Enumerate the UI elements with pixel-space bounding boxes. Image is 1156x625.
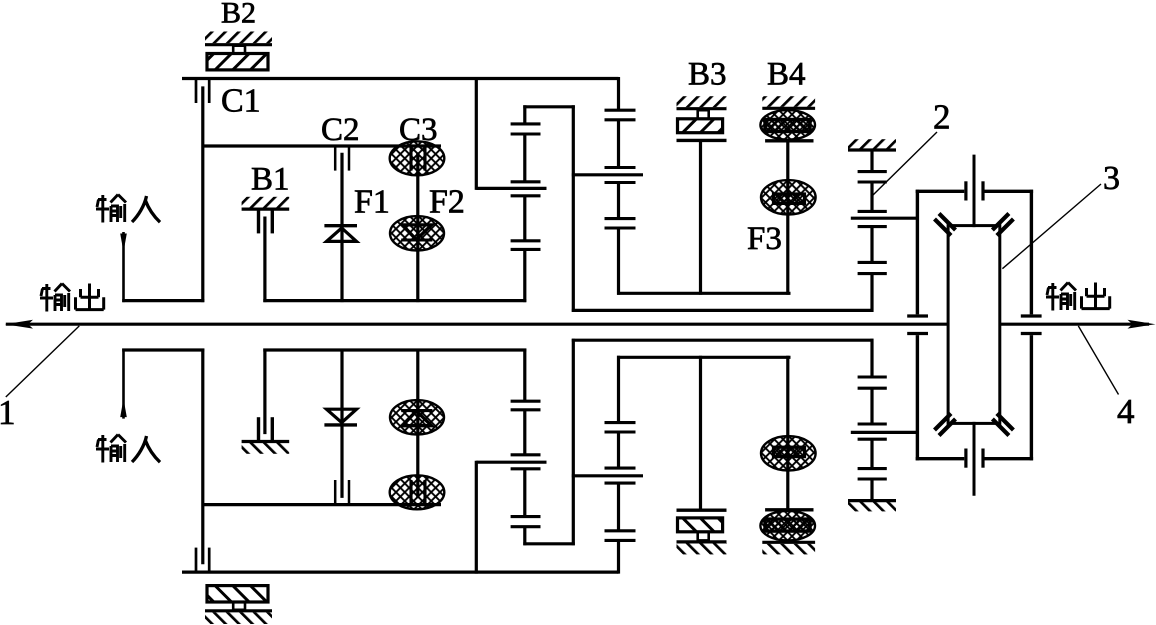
svg-text:F2: F2	[429, 184, 465, 221]
shaft V3 from C2 through F1	[340, 153, 343, 302]
wire W8 lower row right	[263, 299, 526, 302]
gear column G2 bars	[858, 172, 887, 274]
bottom half mirror	[120, 339, 917, 574]
svg-text:C1: C1	[221, 83, 261, 120]
brake B2 ground hatch	[205, 32, 272, 44]
gear column G2 ground hatch	[848, 139, 896, 149]
planet column P2 gear bars	[605, 110, 636, 228]
diff outer frame	[917, 190, 1031, 461]
diff carrier cage	[948, 226, 1000, 424]
brake B2 assembly top	[205, 32, 272, 70]
leader lines	[6, 132, 1119, 397]
wire W7	[572, 309, 874, 312]
brake B2 block	[207, 54, 268, 70]
axis right arrowhead	[1128, 320, 1156, 329]
svg-text:2: 2	[933, 98, 951, 137]
shaft V1	[201, 86, 204, 302]
brake B3 block	[678, 119, 723, 133]
side gear bars right	[1021, 316, 1042, 334]
svg-text:1: 1	[0, 393, 16, 432]
clutch C3 ellipse	[390, 141, 445, 175]
clutch C1	[195, 80, 198, 104]
brake B4 ellipse	[760, 110, 815, 140]
clutch C2	[334, 147, 337, 171]
brake B4 ground hatch	[762, 96, 815, 107]
wire W2 C2/C3 row	[202, 144, 442, 147]
brake B3 ground hatch	[677, 96, 727, 107]
wire W5	[572, 173, 643, 176]
differential assembly	[907, 155, 1041, 496]
wire W6	[617, 292, 791, 295]
shaft V5	[475, 77, 478, 190]
svg-text:B1: B1	[251, 162, 290, 198]
svg-text:C2: C2	[321, 112, 360, 148]
gear column G2 stem	[870, 150, 873, 312]
bevel gear marks top-right	[992, 214, 1013, 236]
wire W8 lower row left	[122, 299, 204, 302]
svg-text:3: 3	[1103, 160, 1120, 197]
leader 2	[872, 132, 938, 197]
shaft V4 from C3 through F2	[416, 152, 419, 302]
side gear bars left	[907, 316, 928, 334]
brake B1 ground hatch	[242, 197, 290, 208]
one-way clutch F1	[324, 224, 357, 227]
input arrow top	[122, 232, 125, 302]
shaft V10 from B4 through F3	[786, 141, 789, 295]
one-way clutch F2 ellipse	[390, 216, 444, 250]
brake B4 ground line	[762, 107, 815, 110]
svg-text:B4: B4	[767, 57, 806, 93]
bevel gear marks bottom-left	[935, 414, 956, 436]
brake B2 assembly bottom mirror	[205, 586, 272, 624]
leader 1	[6, 326, 80, 397]
brake B3 plate line	[677, 139, 727, 142]
shaft V2 from B1	[263, 217, 266, 303]
shaft V9 from B3	[699, 140, 702, 294]
svg-text:4: 4	[1117, 392, 1135, 431]
wire W10 to differential frame	[851, 217, 918, 220]
diff bottom stem and flank bars	[973, 422, 976, 496]
leader 3	[1002, 184, 1101, 269]
brake B4 plate line	[765, 139, 813, 142]
label output right	[1046, 283, 1076, 311]
brake B1 ground line	[242, 208, 290, 211]
one-way clutch F3 ellipse	[761, 180, 816, 214]
label output left	[40, 284, 70, 312]
brake B2 ground line	[205, 43, 272, 46]
brake B2 connector	[233, 46, 245, 54]
label input top	[96, 195, 126, 223]
planet column P1 stem	[523, 105, 526, 302]
bevel gear marks top-left	[935, 214, 956, 236]
bevel gear marks bottom-right	[992, 414, 1013, 436]
brake B3 connector	[698, 110, 709, 119]
svg-text:B2: B2	[221, 0, 256, 30]
planet column P1 gear bars	[511, 124, 541, 249]
label input bottom	[96, 435, 126, 463]
brake B1 plates	[257, 210, 260, 233]
wire W1 top main shaft	[182, 77, 619, 80]
svg-text:F1: F1	[354, 184, 390, 221]
leader 4	[1078, 326, 1118, 395]
svg-text:F3: F3	[747, 221, 782, 257]
top half group (mirrored below)	[120, 77, 917, 312]
wire W3	[523, 105, 575, 108]
diff top stem and flank bars	[973, 155, 976, 228]
brake B3 ground line	[677, 107, 727, 110]
svg-text:B3: B3	[688, 57, 727, 93]
gear column G2 ground line	[848, 148, 896, 151]
svg-text:C3: C3	[399, 112, 438, 148]
axis left arrowhead	[5, 320, 33, 329]
wire W4	[476, 187, 546, 190]
axle axis line	[6, 323, 1149, 326]
planet column P2 stem	[617, 77, 620, 295]
shaft V7	[572, 105, 575, 312]
